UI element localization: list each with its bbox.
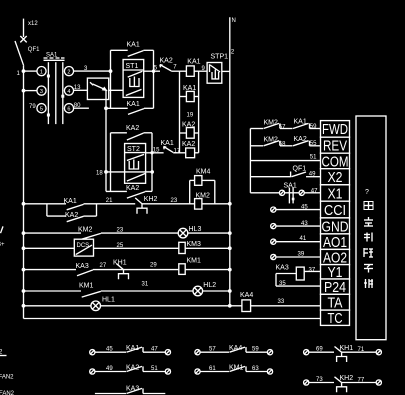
terminal block REV [321, 137, 350, 154]
label 59 FWD [310, 124, 317, 130]
label 47 bottom [151, 347, 158, 353]
wire STP1 to N bus [222, 70, 230, 72]
svg-text:58: 58 [279, 142, 286, 148]
switch SA1 label [46, 52, 58, 58]
svg-text:19: 19 [187, 113, 194, 119]
label X12 [28, 21, 38, 27]
svg-text:KM1: KM1 [187, 258, 202, 265]
wire X2 to terminal [306, 176, 321, 178]
label N [232, 18, 236, 24]
switch SA1 X1 bars [289, 188, 294, 204]
svg-text:KA4: KA4 [240, 292, 253, 299]
label 17 [174, 148, 181, 154]
label 18 [96, 171, 103, 177]
label DCS [77, 243, 90, 249]
label KA2 loop [65, 212, 78, 219]
contact KA2 on ST2 top edge [111, 133, 153, 140]
label 7 [173, 65, 177, 71]
terminal circle 6 [64, 104, 73, 113]
svg-text:KA1: KA1 [187, 58, 200, 65]
label 80 [74, 103, 81, 109]
label 5 [154, 66, 158, 72]
svg-text:KA2: KA2 [182, 141, 195, 148]
svg-text:TA: TA [328, 295, 343, 312]
label 33 [278, 299, 285, 305]
svg-text:KA1: KA1 [127, 101, 140, 108]
contact KA1 row1 blade [67, 204, 84, 209]
label 21 row1 [106, 198, 113, 204]
relay ST2 outer box left edge [110, 133, 112, 192]
svg-text:80: 80 [74, 103, 81, 109]
svg-text:KM3: KM3 [187, 241, 202, 248]
thermal contact KH1 bottom element [337, 352, 347, 362]
label KA2 coil 4 [182, 141, 195, 148]
button STP1 box [207, 63, 222, 84]
label KA2 top ST2 [126, 125, 139, 132]
switch SA1 position dot 3 [61, 95, 64, 98]
wire KM1 bottom row [200, 371, 229, 373]
wire row1 left [24, 203, 67, 205]
svg-text:69: 69 [316, 347, 323, 353]
svg-text:43: 43 [301, 221, 308, 227]
svg-text:71: 71 [358, 347, 365, 353]
label KA1 top [127, 42, 140, 49]
wire AO1 row [276, 241, 321, 243]
node dot bus row1 [22, 202, 26, 206]
wire through selector box [87, 89, 123, 91]
svg-text:KA3: KA3 [76, 263, 89, 270]
thermal contact KH1 bottom blade [335, 347, 342, 353]
wire bus to SA1 terminal 3 [22, 89, 37, 93]
label KA2 coil 3 [182, 121, 195, 128]
switch SA1 chinese subtitle [44, 58, 65, 60]
terminal circle 1 [37, 67, 46, 76]
svg-text:SA1: SA1 [284, 183, 297, 190]
wire bottom rail to TC [24, 318, 321, 320]
terminal block COM [321, 153, 350, 170]
terminal block X2 [321, 169, 350, 187]
breaker QF1 blade [15, 41, 24, 66]
lamp HL3 [178, 228, 188, 238]
button STP1 actuator U [212, 70, 219, 79]
wire row B from ST2 [146, 151, 164, 154]
left edge fragment glyph [0, 242, 5, 248]
terminal circle KA4 bottom right [267, 350, 272, 355]
svg-text:KA1: KA1 [64, 198, 77, 205]
svg-text:25: 25 [117, 243, 124, 249]
svg-text:x12: x12 [28, 21, 38, 27]
label KM3 coil [187, 241, 202, 248]
svg-text:KH1: KH1 [340, 345, 354, 352]
terminal block TA [321, 294, 350, 311]
label 15 [153, 147, 160, 153]
terminal circle KA4 bottom left [195, 350, 200, 355]
node dot bus HL2 row [22, 289, 26, 293]
inverter vertical title glyph zhi [364, 233, 372, 242]
contact ST2 actuator U [129, 160, 138, 170]
svg-text:KA2: KA2 [126, 185, 139, 192]
inverter outer box [356, 116, 386, 340]
wire bus to SA1 terminal 1 [22, 69, 37, 73]
wire KM4 branch [190, 180, 215, 203]
label KA2 row A [160, 58, 173, 65]
terminal block P24 [321, 279, 350, 296]
wire KH1 bottom row [309, 351, 334, 353]
wire HL2 row left [24, 290, 82, 292]
label KM2 REV [264, 137, 279, 144]
wire vertical V line under selector [105, 90, 107, 191]
button STP1 blade [210, 65, 220, 72]
label KM4 [196, 168, 211, 175]
terminal circle KM1 bottom left [195, 369, 200, 374]
svg-text:35: 35 [279, 281, 286, 287]
svg-text:FAN2: FAN2 [0, 375, 14, 381]
wire KA2 bottom row [95, 371, 126, 373]
label 35 P24 [279, 281, 286, 287]
contact KA3 blade [77, 270, 93, 276]
inverter vertical title glyph duan [364, 248, 373, 257]
wire KA2 bottom row b [143, 371, 165, 373]
svg-text:6: 6 [67, 106, 70, 112]
svg-text:73: 73 [316, 377, 323, 383]
svg-text:?: ? [365, 189, 369, 196]
relay ST2 outer box right edge [151, 133, 153, 192]
thermal contact KH2 bottom element partial [337, 383, 347, 393]
svg-text:X1: X1 [328, 185, 343, 202]
terminal circle 4 [64, 86, 73, 95]
contact ST2 blade 1 [127, 154, 144, 160]
wire X1 row start [250, 192, 279, 194]
label 63 bottom [252, 366, 259, 372]
thermal contact KH1 element [119, 270, 129, 280]
lamp HL1 [91, 301, 101, 311]
svg-text:KM2: KM2 [78, 226, 93, 233]
contact DCS blade [76, 245, 92, 255]
label KA1 row B [161, 140, 174, 147]
label KA3 coil [276, 265, 289, 272]
wire DCS row mid [94, 247, 179, 249]
left edge fragment slash [1, 226, 4, 233]
svg-text:COM: COM [322, 153, 349, 170]
wire KA4 bottom row [200, 351, 229, 353]
label 49 X2 [309, 171, 316, 177]
coil KM3 [179, 242, 185, 253]
svg-text:KA1: KA1 [161, 140, 174, 147]
svg-text:39: 39 [298, 252, 305, 258]
wire KA3 left lead loop to P24 [276, 274, 321, 287]
wire FWD mid [280, 128, 293, 130]
coil KA2 rect 3 [180, 128, 199, 139]
label ST2 [127, 146, 140, 153]
contact KA2 REV blade [293, 141, 310, 146]
selector box tick [90, 82, 93, 85]
coil KA1 rect 1 [186, 66, 194, 76]
label 37 Y1 [309, 268, 316, 274]
wire GND row [276, 225, 321, 227]
label QF1 [28, 47, 40, 53]
wire REV row start [250, 145, 263, 147]
svg-text:KH1: KH1 [113, 260, 127, 267]
terminal circle 3 [37, 86, 46, 95]
svg-text:B+: B+ [0, 242, 5, 248]
terminal circle 5 [37, 104, 46, 113]
wire X1 to terminal [304, 192, 320, 194]
node dot V at wire 18 [104, 170, 108, 174]
wire COM row [250, 160, 320, 162]
terminal circle X1 left [279, 190, 284, 195]
wire KH1 bottom row b [342, 351, 377, 353]
wire KH2 bottom row [309, 382, 334, 384]
label KA3 bottom row [126, 386, 139, 393]
contact ST1 blade 2 [126, 89, 142, 95]
contact ST1 blade 1 [128, 71, 143, 77]
svg-text:5: 5 [40, 106, 43, 112]
label 45 bottom [106, 347, 113, 353]
wire KA4 leads [230, 305, 321, 307]
button STP1 tick [209, 64, 211, 72]
wire HL3 to N [188, 231, 232, 235]
contact QF1 blade [292, 172, 307, 177]
thermal contact KH2 bottom blade [335, 377, 342, 383]
label KA3 contact [76, 263, 89, 270]
svg-text:57: 57 [209, 347, 216, 353]
node dot bus HL3 row [22, 231, 26, 235]
lamp HL2 [193, 286, 203, 296]
left edge label FAN2 [0, 375, 14, 381]
node dot bus HL1 row [22, 304, 26, 308]
svg-text:77: 77 [358, 377, 365, 383]
contact KA1 blade row B [164, 147, 174, 153]
thermal contact KH1 blade [117, 264, 124, 270]
coil KA2 rect 4 [186, 148, 199, 158]
label 9 [202, 66, 206, 72]
column left rail [179, 71, 181, 153]
svg-text:2: 2 [67, 69, 70, 75]
label KA1 bottom row [126, 345, 139, 352]
label KM1 contact HL2 row [79, 283, 94, 290]
svg-text:49: 49 [106, 366, 113, 372]
label KA4 coil [240, 292, 253, 299]
label KH2 [144, 196, 158, 203]
wire row1 to N [202, 202, 232, 206]
wire REV to terminal [310, 145, 321, 147]
label KA1 FWD [294, 119, 307, 126]
svg-text:23: 23 [117, 227, 124, 233]
relay ST1 inner box [123, 60, 144, 98]
label 41 AO1 [300, 236, 307, 242]
button STP1 label [211, 54, 229, 61]
svg-text:29: 29 [150, 262, 157, 268]
switch SA1 position dot 1 [47, 75, 50, 78]
svg-text:FAN2: FAN2 [0, 391, 15, 395]
selector box arrow blade [93, 84, 107, 90]
label 49 bottom [106, 366, 113, 372]
contact ST2 blade 2 [127, 174, 145, 182]
label 39 AO2 [298, 252, 305, 258]
svg-text:51: 51 [310, 155, 317, 161]
svg-text:23: 23 [171, 198, 178, 204]
label KM1 bottom row [229, 364, 244, 371]
svg-text:13: 13 [74, 85, 81, 91]
column right rail [198, 71, 200, 153]
wire KM3 to N [185, 246, 232, 250]
terminal circle KM1 bottom right [267, 369, 272, 374]
wire KM1 to N [185, 268, 232, 272]
terminal block AO2 [321, 249, 350, 266]
wire X2 row start [250, 176, 290, 178]
svg-text:KH2: KH2 [144, 196, 158, 203]
svg-text:21: 21 [106, 198, 113, 204]
inverter vertical title glyph qi [364, 202, 373, 210]
svg-text:KA2: KA2 [160, 58, 173, 65]
contact KM2 REV blade [264, 141, 281, 146]
svg-text:15: 15 [153, 147, 160, 153]
svg-text:N: N [232, 18, 236, 24]
label KM2 FWD [264, 119, 279, 126]
svg-text:GND: GND [322, 218, 349, 235]
svg-text:45: 45 [301, 204, 308, 210]
svg-text:49: 49 [309, 171, 316, 177]
wire 3 from terminal 2 to ST1 [74, 69, 113, 73]
label KM2 coil [196, 192, 211, 199]
wire FWD row start [250, 128, 263, 130]
thermal contact KH2 blade [135, 198, 142, 204]
label 57 FWD [279, 124, 286, 130]
label 51 COM [310, 155, 317, 161]
terminal circle KH2 bottom right [376, 380, 381, 385]
contact KA1 FWD blade [293, 123, 310, 128]
svg-text:KM2: KM2 [264, 119, 279, 126]
svg-text:X2: X2 [328, 169, 343, 186]
svg-text:51: 51 [151, 366, 158, 372]
label 45 CCI [301, 204, 308, 210]
label SA1 X1 [284, 183, 297, 190]
coil KA3 [296, 267, 304, 280]
terminal circle KA1 bottom right [165, 350, 170, 355]
wire HL1 row left [24, 305, 91, 307]
label 27 [100, 263, 107, 269]
breaker QF1 terminal X mark [20, 36, 26, 42]
svg-text:KA1: KA1 [127, 42, 140, 49]
label 29 [150, 262, 157, 268]
wire KM1 bottom row b [246, 371, 267, 373]
relay ST1 outer box right edge [153, 50, 155, 108]
label 59 bottom [252, 347, 259, 353]
contact KA2 arrow on row A [160, 65, 163, 68]
wire X1 between [285, 192, 300, 194]
svg-text:37: 37 [309, 268, 316, 274]
svg-text:TC: TC [328, 310, 343, 327]
terminal circle AO1 [271, 239, 276, 244]
terminal block CCI [321, 201, 350, 219]
label KM2 contact HL3 row [78, 226, 93, 233]
svg-text:HL3: HL3 [189, 226, 202, 233]
contact ST1 actuator U [130, 77, 139, 87]
label 2 [231, 50, 235, 56]
svg-text:18: 18 [96, 171, 103, 177]
wire KH2 bottom row b [342, 382, 377, 384]
wire REV mid [280, 145, 293, 147]
label KA1 coil 1 [187, 58, 200, 65]
contact KM2 blade HL3 row [82, 233, 101, 239]
wire HL2 row mid [101, 290, 193, 292]
node dot bus DCS row [22, 246, 26, 250]
contact KA2 bottom blade [127, 366, 144, 371]
coil KA1 rect 2 [180, 91, 199, 101]
wire KA1 bottom row b [143, 351, 165, 353]
wire 80 stub from terminal 6 [74, 107, 89, 109]
left edge label FAN2 partial [0, 391, 15, 395]
label wire 1 [17, 71, 21, 77]
contact KA2 on ST2 bottom edge [106, 191, 152, 198]
box DCS [74, 239, 93, 256]
label 47 X1 [311, 188, 318, 194]
terminal block Y1 [321, 264, 350, 281]
terminal circle AO2 [271, 254, 276, 259]
svg-text:KM1: KM1 [79, 283, 94, 290]
wire row1 mid [84, 203, 136, 205]
label 69 bottom [316, 347, 323, 353]
wire left bus vertical [23, 66, 25, 319]
coil KM4 [195, 176, 202, 186]
switch SA1 contact bar lines [48, 62, 62, 124]
label 77 bottom [358, 377, 365, 383]
inverter vertical title glyph pai [364, 279, 373, 288]
svg-text:41: 41 [300, 236, 307, 242]
terminal block AO1 [321, 234, 350, 251]
svg-text:KA3: KA3 [276, 265, 289, 272]
label HL1 [102, 297, 115, 304]
svg-text:HL1: HL1 [102, 297, 115, 304]
svg-text:47: 47 [311, 188, 318, 194]
terminal circle GND [271, 224, 276, 229]
wire X12 incoming line [23, 19, 25, 37]
terminal block TC [321, 310, 350, 327]
svg-text:CCI: CCI [324, 202, 346, 219]
label 31 [142, 282, 149, 288]
svg-text:KM4: KM4 [196, 168, 211, 175]
svg-text:ST2: ST2 [127, 146, 140, 153]
label 73 bottom [316, 377, 323, 383]
coil KM2 [195, 199, 202, 210]
svg-text:45: 45 [106, 347, 113, 353]
contact KA1 on ST1 bottom edge [106, 108, 154, 114]
terminal circle KH2 bottom left [304, 380, 309, 385]
contact KA4 bottom blade [230, 347, 247, 352]
label 43 GND [301, 221, 308, 227]
wire HL1 to N [101, 304, 232, 308]
label 79 [29, 104, 36, 110]
label 23 row1 [171, 198, 178, 204]
label KM1 coil [187, 258, 202, 265]
wire row1 right [142, 203, 195, 205]
svg-text:61: 61 [209, 366, 216, 372]
relay ST1 outer box left edge [110, 50, 112, 108]
label 51 bottom [151, 366, 158, 372]
relay ST2 inner box [125, 144, 146, 184]
svg-text:HL2: HL2 [203, 282, 216, 289]
contact KA3 bottom blade partial [95, 388, 165, 393]
terminal block GND [321, 218, 350, 235]
coil KM1 [179, 264, 185, 275]
left edge fragment 2 underline [0, 350, 7, 356]
svg-text:63: 63 [252, 366, 259, 372]
node dot bus KM1 row [22, 268, 26, 272]
svg-text:79: 79 [29, 104, 36, 110]
label 13 [74, 85, 81, 91]
terminal block X1 [321, 185, 350, 203]
svg-text:27: 27 [100, 263, 107, 269]
